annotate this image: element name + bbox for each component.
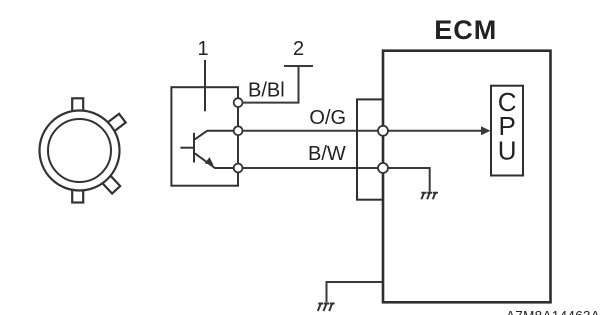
svg-text:ECM: ECM (434, 15, 497, 45)
svg-text:O/G: O/G (309, 107, 346, 129)
svg-text:U: U (498, 135, 517, 165)
svg-text:B/W: B/W (308, 143, 346, 165)
svg-text:2: 2 (293, 38, 304, 60)
svg-text:B/Bl: B/Bl (248, 79, 285, 101)
svg-text:1: 1 (197, 38, 208, 60)
svg-text:A7M8A14463A: A7M8A14463A (506, 309, 600, 315)
